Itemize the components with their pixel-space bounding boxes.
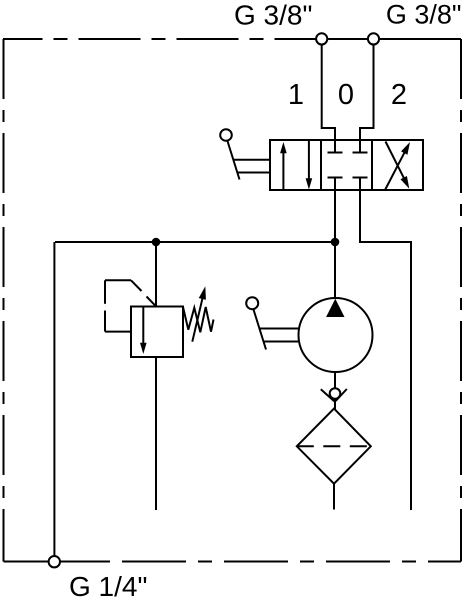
valve V1 left position arrows [280,141,312,191]
svg-text:2: 2 [391,79,407,111]
svg-text:G 1/4": G 1/4" [69,571,147,600]
valve V1 right position crossed arrows [385,142,410,191]
filter F1 element (dashed) [297,445,371,447]
wire relief valve outlet down (drain) [155,357,157,510]
relief valve RV1 body [131,307,183,358]
valve V1 centre position blocked ports (T symbols) [328,140,368,190]
port circle G3/8 right [368,33,379,44]
pump P1 hand lever [246,297,300,349]
enclosure border right [460,39,462,562]
wire filter suction stub [333,484,335,510]
relief valve RV1 spring [183,307,214,332]
wire valve pressure port down to pump [334,190,336,299]
relief valve RV1 pilot line (dashed) [105,280,156,331]
relief valve RV1 internal arrowhead [140,343,147,354]
valve V1 body [270,140,423,190]
wire junction A down to relief valve [155,242,157,307]
svg-text:G 3/8": G 3/8" [234,0,312,31]
relief valve RV1 adjustment arrow [192,296,203,342]
wire from port G3/8 no.2 down to valve port 2 (jog) [360,45,374,140]
wire main pressure rail horizontal [55,241,335,243]
pump P1 flow triangle [326,299,344,317]
enclosure border left [3,39,5,562]
enclosure border bottom [4,561,111,563]
filter F1 diamond [297,409,371,484]
wire left rail down to port G1/4 [53,242,55,555]
check valve CV1 ball [330,388,341,399]
svg-text:G 3/8": G 3/8" [386,0,462,29]
port circle G3/8 left [316,33,327,44]
junction node A [152,238,161,247]
wire from port G3/8 no.1 down to valve port 1 (jog) [322,45,335,140]
pump P1 circle [299,298,373,372]
valve V1 hand lever [220,129,270,179]
svg-text:0: 0 [338,79,354,111]
port circle G1/4 [49,556,60,567]
relief valve RV1 internal arrow [142,307,144,345]
junction node B [331,238,340,247]
wire valve port to tank line (jog right) [360,190,411,510]
wire pump suction down to filter [334,373,336,409]
svg-text:1: 1 [288,79,304,111]
check valve CV1 seat [321,389,347,401]
